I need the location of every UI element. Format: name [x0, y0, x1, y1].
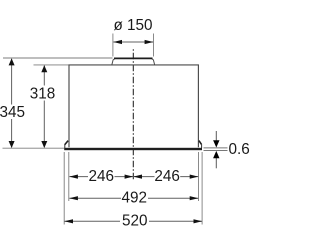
arrowhead ø150 left: [113, 40, 122, 44]
arrowhead 345 up: [9, 58, 15, 65]
dimension line 345 upper segment: [11, 59, 13, 105]
dimension line 345 lower segment: [11, 119, 13, 147]
extension line ø150 left: [112, 34, 114, 57]
rim left end vertical: [64, 144, 66, 148]
arrowhead 246 left outer: [69, 175, 78, 179]
svg-text:ø 150: ø 150: [113, 17, 152, 34]
arrowhead 0.6 up: [213, 151, 219, 158]
arrowhead 520 left: [64, 219, 73, 223]
dimension line 318 upper segment: [43, 66, 45, 86]
bottom rim bar: [64, 148, 202, 150]
arrowhead 492 left: [69, 196, 78, 200]
extension line 318 top: [34, 64, 69, 66]
extension line body left bottom: [68, 152, 70, 201]
hood body outline: [69, 65, 198, 147]
extension line 0.6 top: [204, 147, 228, 149]
svg-text:520: 520: [122, 213, 148, 230]
arrowhead 246 right outer: [190, 175, 199, 179]
dimension line 520 segment a: [65, 220, 121, 222]
dimension line 246 left segment b: [115, 176, 134, 178]
svg-text:0.6: 0.6: [229, 141, 250, 158]
arrowhead 0.6 down: [213, 140, 219, 147]
svg-text:345: 345: [0, 104, 25, 121]
dimension line 246 left segment a: [69, 176, 88, 178]
svg-text:492: 492: [122, 190, 148, 207]
svg-text:246: 246: [89, 168, 115, 185]
dimension line 520 segment b: [149, 220, 202, 222]
dimension line 318 lower segment: [43, 101, 45, 148]
dimension line ø150: [113, 41, 153, 43]
dimension line 0.6 upper: [215, 131, 217, 142]
svg-text:246: 246: [154, 168, 180, 185]
rim right end tick: [199, 141, 202, 145]
arrowhead 345 down: [9, 141, 15, 148]
extension line 0.6 bottom: [204, 150, 228, 152]
arrowhead 318 down: [41, 141, 47, 148]
arrowhead ø150 right: [145, 40, 154, 44]
svg-text:318: 318: [30, 85, 56, 102]
center line: [132, 49, 134, 181]
duct collar outline: [112, 58, 155, 64]
dimension line 0.6 lower: [215, 157, 217, 168]
arrowhead 246 left inner: [125, 175, 134, 179]
rim left end tick: [65, 141, 68, 145]
extension line body right bottom: [198, 152, 200, 201]
extension line bottom left: [3, 147, 65, 149]
dimension line 492 segment a: [69, 197, 121, 199]
extension line rim left bottom: [63, 152, 65, 225]
dimension line 492 segment b: [148, 197, 198, 199]
extension line 345 top: [3, 57, 113, 59]
rim right end vertical: [201, 144, 203, 148]
dimension line 246 right segment a: [133, 176, 154, 178]
dimension line 246 right segment b: [180, 176, 198, 178]
extension line rim right bottom: [201, 152, 203, 225]
extension line ø150 right: [153, 34, 155, 57]
arrowhead 492 right: [190, 196, 199, 200]
arrowhead 246 right inner: [133, 175, 142, 179]
arrowhead 520 right: [194, 219, 203, 223]
arrowhead 318 up: [41, 65, 47, 72]
duct collar top edge: [114, 57, 153, 59]
